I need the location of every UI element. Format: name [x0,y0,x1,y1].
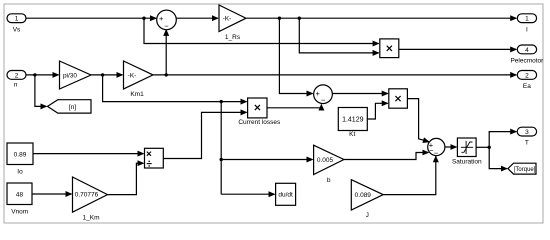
svg-text:2: 2 [525,72,529,79]
svg-text:Vs: Vs [13,27,21,34]
svg-text:1_Km: 1_Km [83,214,100,221]
svg-text:1: 1 [525,16,529,23]
svg-text:1: 1 [15,16,19,23]
svg-text:1_Rs: 1_Rs [225,34,241,41]
svg-text:Km1: Km1 [130,91,144,98]
svg-text:[n]: [n] [69,104,76,111]
svg-text:-K-: -K- [223,16,232,23]
svg-text:[Torque]: [Torque] [514,167,536,173]
svg-text:n: n [14,82,18,89]
svg-text:0.70776: 0.70776 [75,191,99,198]
svg-text:1.4129: 1.4129 [342,116,364,123]
svg-text:Io: Io [17,168,23,175]
svg-text:Pelecmotor: Pelecmotor [510,58,544,65]
svg-text:-K-: -K- [128,72,137,79]
svg-text:−: − [164,21,169,30]
svg-text:2: 2 [15,72,19,79]
svg-text:Vnom: Vnom [11,208,28,215]
svg-text:0.005: 0.005 [317,157,334,164]
svg-text:0.89: 0.89 [14,151,27,158]
svg-text:b: b [327,177,331,184]
svg-text:Kt: Kt [349,131,355,138]
svg-text:du/dt: du/dt [278,192,293,199]
svg-text:4: 4 [525,47,529,54]
svg-text:0.089: 0.089 [355,192,372,199]
svg-text:+: + [316,89,321,98]
svg-text:3: 3 [525,129,529,136]
svg-text:I: I [526,27,528,34]
svg-text:48: 48 [16,192,24,199]
svg-text:Current losses: Current losses [238,119,281,126]
svg-text:pi/30: pi/30 [63,72,77,79]
svg-text:+: + [159,14,164,23]
svg-text:−: − [321,96,326,105]
svg-text:Ea: Ea [523,83,531,90]
svg-text:T: T [525,140,529,147]
svg-text:Saturation: Saturation [452,158,482,165]
svg-text:J: J [366,212,369,219]
svg-text:−: − [434,149,439,158]
